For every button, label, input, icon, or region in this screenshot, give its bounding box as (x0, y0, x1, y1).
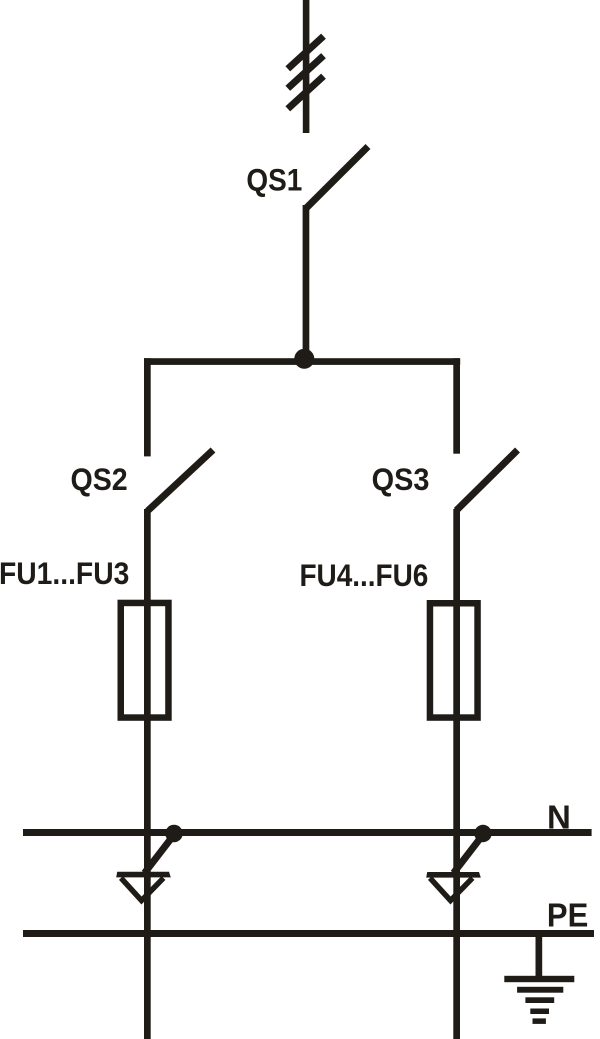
svg-text:QS1: QS1 (246, 163, 302, 198)
svg-text:QS3: QS3 (372, 463, 430, 497)
svg-text:FU1...FU3: FU1...FU3 (0, 557, 129, 592)
svg-text:FU4...FU6: FU4...FU6 (299, 559, 428, 594)
svg-text:N: N (547, 798, 571, 835)
svg-text:QS2: QS2 (71, 463, 128, 498)
svg-text:PE: PE (547, 897, 588, 934)
